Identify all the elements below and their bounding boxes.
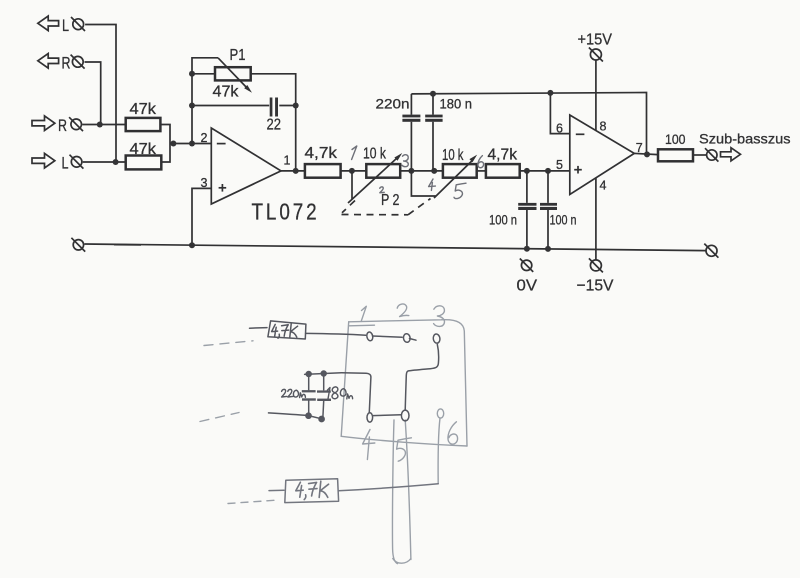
svg-text:47k: 47k: [213, 83, 240, 100]
svg-text:220n: 220n: [376, 97, 410, 112]
svg-text:P 2: P 2: [381, 192, 400, 209]
svg-text:22: 22: [267, 116, 282, 133]
svg-text:L: L: [62, 154, 69, 173]
svg-text:10 k: 10 k: [442, 147, 464, 164]
svg-text:−15V: −15V: [577, 277, 614, 294]
svg-text:0V: 0V: [517, 277, 538, 294]
svg-text:100 n: 100 n: [550, 212, 577, 228]
svg-text:2: 2: [201, 131, 208, 145]
svg-text:R: R: [58, 116, 67, 135]
svg-text:1: 1: [284, 154, 291, 168]
svg-text:4,7k: 4,7k: [305, 145, 339, 162]
svg-text:47k: 47k: [130, 141, 158, 158]
svg-text:47k: 47k: [130, 101, 158, 118]
svg-text:R: R: [62, 54, 71, 73]
svg-text:P1: P1: [230, 47, 246, 64]
svg-text:10 k: 10 k: [363, 145, 387, 162]
svg-text:100 n: 100 n: [489, 212, 517, 228]
svg-text:L: L: [62, 16, 69, 35]
svg-text:180 n: 180 n: [440, 97, 473, 112]
svg-text:8: 8: [600, 119, 607, 133]
svg-text:6: 6: [556, 121, 563, 135]
svg-text:TL072: TL072: [252, 199, 320, 225]
svg-text:Szub-basszus: Szub-basszus: [699, 130, 791, 146]
svg-text:5: 5: [556, 158, 563, 172]
svg-text:100: 100: [665, 131, 686, 147]
svg-text:+15V: +15V: [578, 31, 613, 48]
svg-text:4,7k: 4,7k: [488, 146, 518, 163]
svg-text:4: 4: [600, 178, 607, 192]
